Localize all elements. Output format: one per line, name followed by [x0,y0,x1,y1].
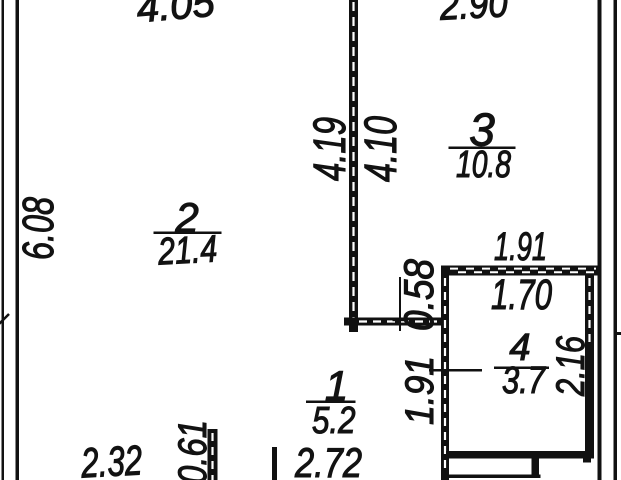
wall W3 right of room 4 [585,274,594,459]
svg-text:1.70: 1.70 [491,271,552,319]
svg-text:0.58: 0.58 [395,258,442,331]
tick on right wall [614,332,621,335]
svg-text:6.08: 6.08 [14,197,63,260]
label 4 extension line [429,369,482,372]
svg-text:21.4: 21.4 [156,228,218,273]
svg-text:2.90: 2.90 [438,0,509,29]
wall stub S1 at bottom of room 1 [208,429,218,480]
left outer wall inner face line [16,0,20,480]
right outer wall outer face line [614,0,618,480]
svg-text:4.19: 4.19 [304,117,355,181]
extension line E2 for dim 2.72 [272,447,277,480]
wall H3 bottom of room 4 [446,451,592,459]
svg-text:2.16: 2.16 [549,335,593,396]
svg-text:1.91: 1.91 [398,356,442,425]
svg-text:3.7: 3.7 [502,360,547,402]
svg-text:10.8: 10.8 [456,144,511,186]
room 3 label underline [449,147,516,150]
svg-text:2.72: 2.72 [294,439,362,480]
tick on left wall [0,314,9,324]
room 4 label underline [494,367,549,370]
svg-text:5.2: 5.2 [312,400,356,442]
svg-text:0.61: 0.61 [171,420,215,480]
extension line E1 for dim 0.58 [399,277,401,331]
tick on E1 [393,319,406,321]
wall H2 top of room 4 [441,266,600,276]
wall step V4 below room 4 [532,459,540,477]
svg-text:4.10: 4.10 [355,116,406,182]
wall H4 thin lower line [444,475,541,479]
room 2 label underline [154,232,222,235]
wall W1 between room 2 and room 3 [349,0,358,326]
wall W2 left of room 4 [441,266,449,480]
room 1 label underline [306,401,356,404]
left outer wall outer face line [2,0,5,480]
wall H1 horizontal below room 3 left part [344,318,449,326]
svg-text:1.91: 1.91 [494,225,547,269]
right outer wall inner face line [598,0,602,480]
svg-text:2.32: 2.32 [79,436,143,480]
